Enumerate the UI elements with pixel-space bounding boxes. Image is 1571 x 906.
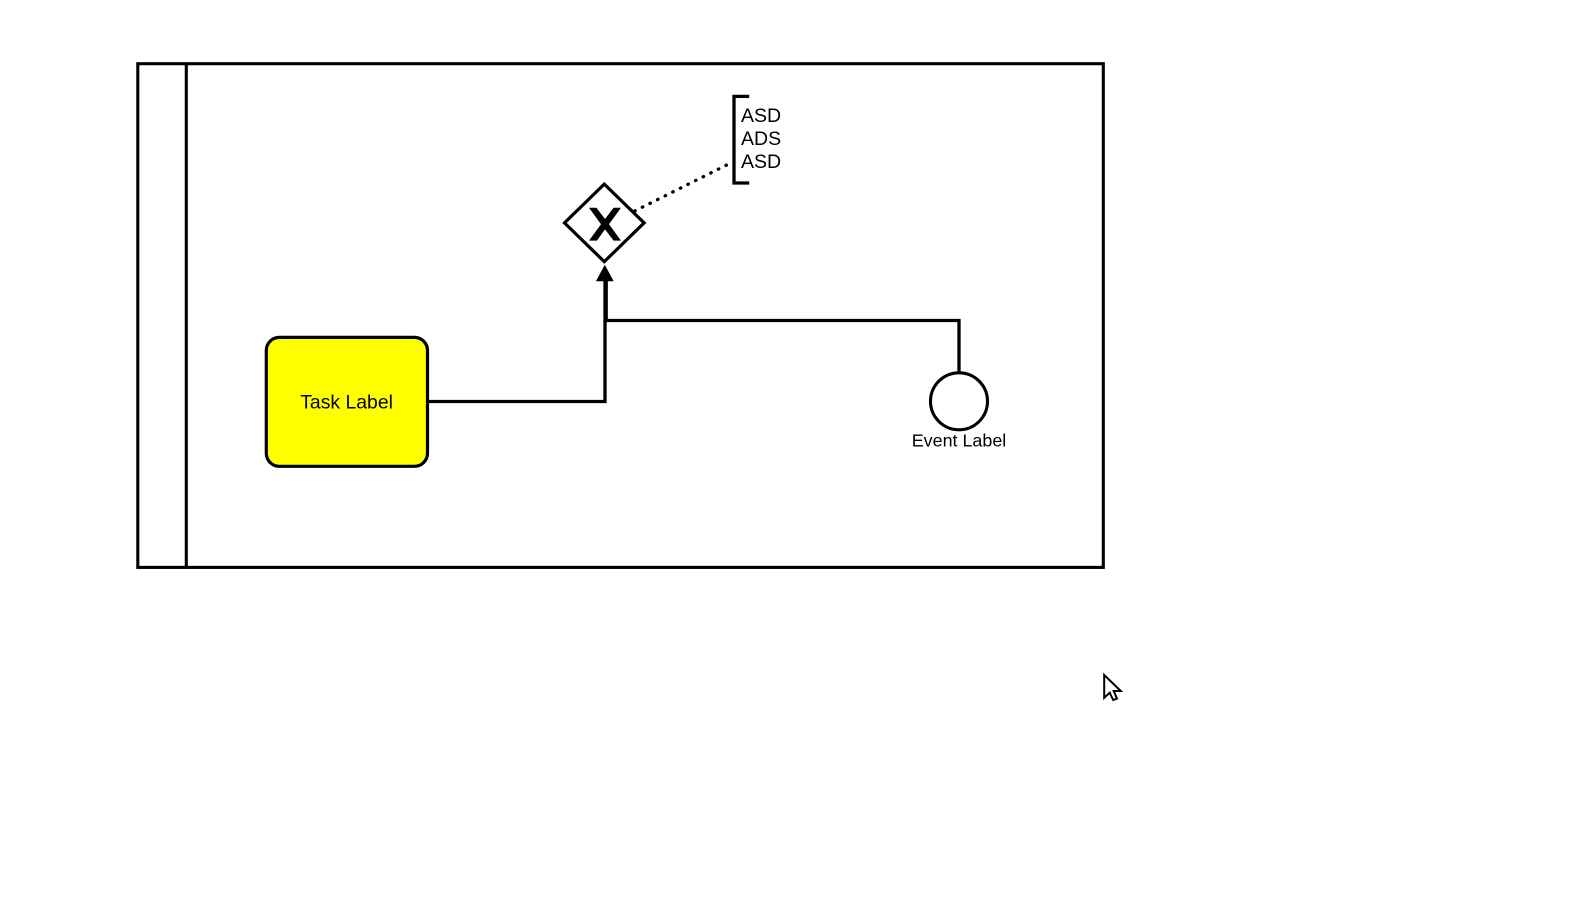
sequence flow Task to Gateway <box>428 281 605 402</box>
svg-text:ADS: ADS <box>741 128 781 150</box>
event E1 (circle) <box>931 373 988 430</box>
association (dotted) gateway to annotation <box>604 162 733 227</box>
annotation bracket <box>734 96 749 183</box>
task T1 <box>266 337 427 466</box>
arrowhead at gateway <box>596 265 614 282</box>
mouse cursor <box>1104 675 1121 700</box>
gateway G1 (exclusive, diamond) <box>565 184 645 262</box>
svg-text:Task Label: Task Label <box>300 391 393 413</box>
svg-text:ASD: ASD <box>741 151 781 173</box>
sequence flow Event to Gateway <box>606 281 959 372</box>
gateway X marker <box>589 208 621 241</box>
lane divider <box>185 64 188 568</box>
svg-text:ASD: ASD <box>741 105 781 127</box>
svg-text:Event Label: Event Label <box>912 431 1007 451</box>
pool Participant <box>138 64 1104 568</box>
